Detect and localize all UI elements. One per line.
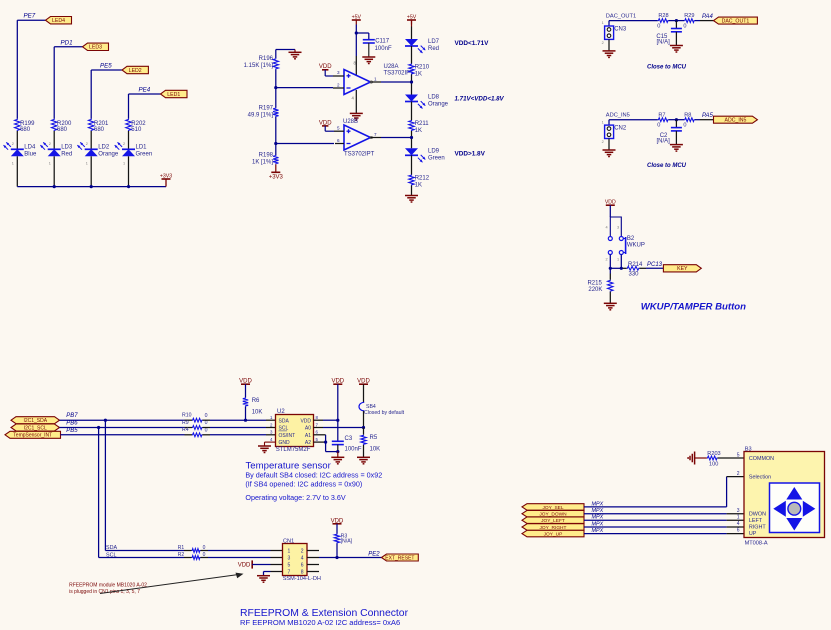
wire JOY_DOWN to pin3 [584, 513, 744, 515]
capacitor C15 [656, 21, 682, 46]
svg-text:3: 3 [337, 70, 340, 75]
label VDD<1.71V [455, 40, 490, 47]
net tag EXT_RESET [382, 554, 419, 561]
svg-text:R199: R199 [20, 121, 35, 127]
power VDD (U28B pin5) [319, 120, 334, 131]
connector CN1 SSM-104-L-DH [283, 538, 321, 582]
svg-text:1K: 1K [415, 71, 422, 77]
svg-text:DAC_OUT1: DAC_OUT1 [606, 13, 636, 19]
svg-text:Red: Red [61, 151, 72, 157]
svg-text:SSM-104-L-DH: SSM-104-L-DH [283, 576, 321, 582]
svg-text:CN2: CN2 [614, 126, 627, 132]
ground (U2 GND pin4) [258, 442, 276, 452]
svg-text:3: 3 [737, 508, 740, 514]
resistor R8 [683, 112, 694, 128]
svg-text:EXT_RESET: EXT_RESET [385, 555, 414, 561]
svg-text:8: 8 [301, 570, 304, 576]
resistor R211 [409, 120, 429, 134]
svg-text:TS3702IPT: TS3702IPT [344, 152, 375, 158]
svg-text:2: 2 [123, 142, 125, 146]
power VDD (R6 pull-up) [239, 378, 252, 397]
svg-text:PB6: PB6 [66, 421, 78, 427]
wire JOY_LEFT to pin1 [584, 519, 744, 521]
solder bridge SB4 [359, 402, 405, 416]
ground (joystick common) [688, 452, 707, 465]
resistor R212 [409, 175, 430, 189]
svg-text:SCL: SCL [106, 552, 117, 558]
svg-text:R6: R6 [252, 398, 260, 404]
svg-text:KEY: KEY [677, 266, 688, 272]
label MPX (JOY_RIGHT) [592, 521, 604, 527]
svg-text:LED2: LED2 [129, 68, 142, 74]
LED LD4 Blue [4, 142, 37, 165]
wire net PD1 (pd1) [54, 39, 82, 119]
svg-text:LED4: LED4 [52, 18, 65, 24]
svg-text:7: 7 [374, 132, 377, 137]
svg-text:A0: A0 [305, 426, 311, 432]
wire resistor R200 to LED LD3 [53, 131, 55, 149]
svg-text:1: 1 [288, 549, 291, 555]
connector CN2 [602, 120, 627, 144]
wire +5V to C117 and U28A pin8 [355, 25, 369, 57]
wire R10 to U2 pin1 [203, 419, 276, 422]
svg-text:VDD>1.8V: VDD>1.8V [455, 151, 486, 158]
wire R214 to KEY tag [639, 262, 663, 268]
svg-text:4: 4 [606, 226, 608, 230]
svg-text:PE2: PE2 [368, 552, 380, 558]
label MPX (JOY_DOWN) [592, 508, 604, 514]
wire R1 to CN1 pin1 [201, 550, 283, 552]
resistor R214 [627, 262, 643, 278]
svg-text:I2C1_SCL: I2C1_SCL [24, 425, 47, 431]
svg-text:R212: R212 [415, 176, 430, 182]
svg-text:100: 100 [709, 461, 718, 467]
net name ADC_IN5 [606, 113, 630, 119]
LED LD7 Red [405, 39, 440, 53]
svg-text:680: 680 [20, 127, 31, 133]
ground (under C3) [331, 452, 344, 464]
net tag JOY_UP [522, 530, 584, 537]
wire R210 to node (U28A out) [410, 75, 413, 95]
svg-text:R215: R215 [587, 280, 602, 286]
resistor R196 [244, 56, 279, 70]
resistor R210 [409, 64, 430, 78]
svg-text:0: 0 [683, 123, 686, 129]
svg-text:GND: GND [279, 440, 291, 446]
wire LD7 to R210 [411, 46, 413, 64]
wire R29 to tag / label PA4 [695, 14, 714, 21]
resistor R197 [248, 88, 279, 119]
wire R9 to U2 pin2 [203, 427, 276, 429]
wire LD8 to R211 [411, 102, 413, 121]
svg-text:R2: R2 [178, 552, 185, 558]
svg-text:ADC_IN5: ADC_IN5 [606, 113, 630, 119]
ground (under C117) [362, 43, 375, 64]
net tag JOY_RIGHT [522, 524, 584, 531]
svg-text:6: 6 [737, 528, 740, 534]
svg-text:680: 680 [57, 127, 68, 133]
resistor R201 [89, 119, 110, 133]
svg-text:1K [1%]: 1K [1%] [252, 159, 273, 165]
svg-text:1: 1 [86, 162, 88, 166]
power VDD (CN1 pin5) [238, 560, 283, 568]
svg-text:1: 1 [602, 120, 604, 124]
svg-text:B3: B3 [745, 447, 752, 453]
connector CN3 [602, 21, 627, 45]
resistor R4 [182, 427, 208, 437]
wire R2 to CN1 pin3 [201, 557, 283, 559]
svg-text:3: 3 [617, 226, 619, 230]
svg-text:TempSensor_INT: TempSensor_INT [13, 433, 52, 439]
svg-text:SDA: SDA [279, 418, 290, 424]
svg-text:10K: 10K [370, 447, 381, 453]
svg-text:[N/A]: [N/A] [656, 139, 670, 145]
wire JOY_SEL to pin2 [584, 477, 744, 507]
wire resistor R201 to LED LD2 [90, 131, 92, 149]
power +3V3 (divider bottom) [269, 164, 284, 180]
svg-text:220K: 220K [588, 287, 602, 293]
wire net PE5 (pe5) [91, 63, 122, 119]
svg-text:1: 1 [12, 162, 14, 166]
ground (U28A pin4) [350, 90, 363, 120]
svg-text:WKUP/TAMPER Button: WKUP/TAMPER Button [641, 302, 746, 313]
svg-text:PB5: PB5 [66, 428, 78, 434]
wire LED LD1 to +3V3 rail [128, 156, 130, 186]
svg-text:MT008-A: MT008-A [745, 541, 768, 547]
svg-text:1.71V<VDD<1.8V: 1.71V<VDD<1.8V [455, 96, 505, 103]
ground (LED chain bottom) [405, 186, 418, 203]
junction node A [274, 86, 277, 89]
svg-text:VDD: VDD [300, 418, 311, 424]
svg-text:Operating voltage: 2.7V to 3.6: Operating voltage: 2.7V to 3.6V [245, 493, 345, 502]
net tag LED3 [83, 43, 109, 51]
svg-text:4: 4 [737, 521, 740, 527]
svg-text:R214: R214 [628, 262, 643, 268]
note SB4 opened [245, 480, 362, 489]
resistor R215 [587, 268, 613, 293]
net tag LED1 [161, 90, 188, 98]
wire ADC_IN5 [609, 120, 658, 125]
svg-text:PB7: PB7 [66, 413, 78, 419]
ground (under CN3) [603, 39, 616, 57]
ground (under R215) [604, 292, 617, 310]
svg-text:0: 0 [657, 123, 660, 129]
svg-text:R196: R196 [259, 56, 274, 62]
LED LD9 Green [405, 148, 445, 162]
svg-text:STLM75M2F: STLM75M2F [276, 447, 311, 453]
resistor R2 [178, 552, 206, 559]
wire JOY_RIGHT to pin4 [584, 526, 744, 528]
net tag ADC_IN5 [714, 116, 758, 123]
svg-text:R197: R197 [259, 105, 274, 111]
title Temperature sensor [246, 460, 332, 471]
svg-text:COMMON: COMMON [749, 456, 774, 462]
wire resistor R199 to LED LD4 [16, 131, 18, 149]
wire U28A output [371, 81, 412, 83]
power +5V (left) [352, 14, 362, 24]
net tag LED4 [46, 17, 72, 25]
note Close to MCU [647, 163, 687, 169]
wire LED LD4 to +3V3 rail [16, 156, 18, 186]
svg-text:SDA: SDA [106, 545, 117, 551]
svg-text:+3V3: +3V3 [269, 175, 284, 181]
svg-text:LD3: LD3 [61, 144, 73, 150]
svg-text:6: 6 [337, 138, 340, 143]
push-button B2 WKUP [606, 217, 645, 262]
resistor R9 [182, 420, 208, 430]
subtitle RF EEPROM I2C address [240, 618, 400, 627]
resistor R3 [334, 534, 352, 558]
op-amp U28A [333, 56, 414, 101]
svg-text:WKUP: WKUP [627, 242, 645, 248]
ground (under R5) [357, 445, 370, 464]
svg-text:LD2: LD2 [98, 144, 110, 150]
net tag JOY_SEL [522, 504, 584, 511]
svg-text:Closed by default: Closed by default [364, 410, 405, 416]
wire VDD to button [609, 205, 611, 217]
svg-text:(If SB4 opened: I2C address =: (If SB4 opened: I2C address = 0x90) [245, 480, 362, 489]
svg-text:C117: C117 [375, 38, 390, 44]
wire SDA drop [105, 420, 191, 551]
svg-text:LD8: LD8 [428, 95, 440, 101]
svg-text:Close to MCU: Close to MCU [647, 163, 687, 169]
net tag TempSensor_INT [5, 431, 61, 438]
net tag I2C1_SCL [11, 424, 60, 431]
wire R7 to R8 [669, 118, 685, 121]
svg-text:4: 4 [301, 556, 304, 562]
svg-text:0: 0 [683, 24, 686, 30]
svg-text:+5V: +5V [352, 14, 362, 20]
joystick icon [770, 483, 820, 533]
svg-text:1: 1 [49, 162, 51, 166]
svg-text:2: 2 [49, 142, 51, 146]
resistor R29 [683, 13, 694, 29]
power +5V (right) [407, 14, 417, 24]
svg-text:Green: Green [428, 155, 445, 161]
temperature sensor U2 STLM75M2F [270, 409, 318, 453]
resistor R5 [361, 428, 380, 453]
resistor R200 [52, 119, 73, 133]
wire R196 top to ground [276, 50, 295, 59]
resistor R10 [182, 413, 208, 423]
label PB7 [66, 413, 78, 419]
joystick B3 MT008-A [737, 447, 825, 547]
svg-text:PE4: PE4 [139, 87, 151, 94]
svg-text:A1: A1 [305, 433, 311, 439]
svg-text:1: 1 [617, 258, 619, 262]
svg-text:1: 1 [374, 76, 377, 81]
power VDD (U28A pin3) [319, 64, 333, 76]
wire +5V to LD7 [411, 20, 413, 39]
svg-text:C3: C3 [345, 436, 353, 442]
svg-text:R211: R211 [415, 121, 430, 127]
wire R211 to node (U28B out) [410, 131, 413, 148]
svg-text:U28B: U28B [343, 119, 358, 125]
svg-text:Green: Green [136, 151, 153, 157]
label VDD>1.8V [455, 151, 486, 158]
svg-text:1: 1 [602, 21, 604, 25]
arrow to CN1 [100, 573, 244, 594]
wire LED LD3 to +3V3 rail [53, 156, 55, 186]
label PB5 [66, 428, 78, 434]
svg-text:I2C1_SDA: I2C1_SDA [23, 418, 47, 424]
label 1.71V<VDD<1.8V [455, 96, 505, 103]
svg-text:Blue: Blue [24, 151, 37, 157]
svg-text:RF EEPROM MB1020 A-02 I2C addr: RF EEPROM MB1020 A-02 I2C address= 0xA6 [240, 618, 400, 627]
svg-text:R9: R9 [182, 420, 189, 426]
svg-text:R8: R8 [684, 112, 691, 118]
svg-text:0: 0 [205, 427, 208, 433]
LED LD2 Orange [77, 142, 118, 165]
svg-text:5: 5 [737, 452, 740, 458]
wire +3V3 rail [17, 186, 166, 188]
ground (under CN2) [603, 139, 616, 157]
net tag LED2 [122, 66, 148, 74]
svg-text:RIGHT: RIGHT [749, 524, 766, 530]
svg-text:10K: 10K [252, 410, 263, 416]
wire U2 pin8 to VDD [314, 419, 340, 422]
note SB4 closed [245, 471, 382, 480]
svg-text:+3V3: +3V3 [160, 173, 172, 179]
power +3V3 [160, 173, 172, 186]
junction node B [274, 142, 277, 145]
svg-text:2: 2 [86, 142, 88, 146]
svg-text:LED3: LED3 [89, 45, 102, 51]
wire node B [276, 117, 334, 144]
svg-text:100nF: 100nF [375, 46, 392, 52]
capacitor C117 [363, 38, 392, 52]
wire button to node [609, 255, 627, 270]
wire R28 to R29 [669, 19, 685, 22]
wire CN1 pin4 to EXT_RESET [307, 552, 382, 560]
title RFEEPROM & Extension Connector [240, 608, 409, 619]
capacitor C2 [656, 120, 681, 145]
resistor R6 [243, 397, 263, 420]
note RFEEPROM module [69, 583, 147, 595]
net tag DAC_OUT1 [714, 17, 758, 24]
wire U28B output [371, 137, 412, 139]
resistor R1 [178, 545, 206, 552]
svg-text:Selection: Selection [749, 475, 771, 481]
svg-text:5: 5 [337, 126, 340, 131]
svg-text:1.15K [1%]: 1.15K [1%] [244, 63, 274, 69]
svg-text:R29: R29 [684, 13, 694, 19]
svg-text:Orange: Orange [98, 151, 119, 157]
svg-text:[N/A]: [N/A] [341, 539, 353, 545]
wire R8 to tag / label PA5 [695, 113, 714, 120]
power VDD (button) [605, 200, 616, 206]
svg-text:2: 2 [602, 41, 604, 45]
svg-text:2: 2 [12, 142, 14, 146]
svg-text:49.9 [1%]: 49.9 [1%] [248, 112, 274, 118]
svg-text:R200: R200 [57, 121, 72, 127]
svg-text:JOY_UP: JOY_UP [544, 532, 563, 538]
net name DAC_OUT1 [606, 13, 636, 19]
ground (CN1 pin7) [257, 572, 283, 583]
svg-text:By default SB4 closed: I2C add: By default SB4 closed: I2C address = 0x9… [245, 471, 382, 480]
svg-text:JOY_SEL: JOY_SEL [542, 505, 563, 511]
power VDD (U2 pin8 / C3) [331, 378, 344, 420]
resistor R203 [707, 451, 721, 467]
wire resistor R202 to LED LD1 [128, 131, 130, 149]
svg-text:A2: A2 [305, 440, 311, 446]
stub CN1 pin2 [307, 550, 319, 552]
op-amp U28B [334, 119, 377, 157]
net tag I2C1_SDA [11, 417, 60, 424]
wire R203 to COMMON pin5 [718, 457, 744, 459]
note operating voltage [245, 493, 345, 502]
wire R4 to U2 pin3 [203, 434, 276, 436]
svg-text:JOY_LEFT: JOY_LEFT [541, 518, 565, 524]
wire net PE4 (pe4) [129, 87, 161, 119]
svg-text:R202: R202 [131, 121, 146, 127]
resistor R202 [126, 119, 147, 133]
resistor R198 [252, 144, 279, 166]
svg-text:R210: R210 [415, 65, 430, 71]
svg-text:OS/INT: OS/INT [279, 433, 296, 439]
resistor R7 [657, 112, 668, 128]
svg-text:B2: B2 [627, 236, 635, 242]
svg-text:R10: R10 [182, 413, 192, 419]
svg-text:PE5: PE5 [100, 63, 112, 70]
label MPX (JOY_SEL) [592, 501, 604, 507]
svg-text:PA5: PA5 [702, 113, 714, 119]
ground (under C15) [670, 32, 683, 52]
svg-text:100nF: 100nF [345, 447, 362, 453]
LED LD8 Orange [405, 95, 449, 109]
wire LD9 to R212 [411, 155, 413, 174]
svg-text:1K: 1K [415, 182, 422, 188]
svg-text:PA4: PA4 [702, 14, 714, 20]
svg-text:5: 5 [288, 563, 291, 569]
svg-text:R201: R201 [94, 121, 109, 127]
svg-text:LED1: LED1 [167, 92, 180, 98]
svg-text:510: 510 [131, 127, 142, 133]
wire SB4 to A0 [314, 411, 366, 429]
svg-text:LD9: LD9 [428, 148, 440, 154]
svg-text:CN1: CN1 [283, 538, 294, 544]
svg-text:330: 330 [629, 272, 640, 278]
svg-text:R4: R4 [182, 427, 189, 433]
svg-text:PC13: PC13 [647, 262, 663, 268]
wire JOY_UP to pin6 [584, 533, 744, 535]
svg-text:VDD: VDD [605, 200, 616, 206]
label PB6 [66, 421, 78, 427]
svg-text:VDD<1.71V: VDD<1.71V [455, 40, 490, 47]
svg-text:ADC_IN5: ADC_IN5 [724, 118, 746, 124]
svg-text:1: 1 [737, 515, 740, 521]
ground (under C2) [670, 131, 683, 151]
LED LD1 Green [115, 142, 152, 165]
svg-text:3: 3 [288, 556, 291, 562]
svg-text:6: 6 [301, 563, 304, 569]
wire net PE7 (pe7) [17, 13, 45, 119]
wire node A [276, 70, 333, 88]
wire SCL drop [99, 428, 192, 559]
net tag KEY [663, 265, 701, 273]
svg-text:+5V: +5V [407, 14, 417, 20]
title WKUP/TAMPER Button [641, 302, 746, 313]
wire I2C1_SDA [60, 419, 193, 422]
resistor R28 [657, 13, 668, 29]
svg-text:VDD: VDD [238, 563, 251, 569]
svg-text:LD1: LD1 [136, 144, 148, 150]
wire LED LD2 to +3V3 rail [90, 156, 92, 186]
ground (top of R196) [289, 50, 302, 59]
svg-text:Orange: Orange [428, 102, 449, 108]
svg-text:2: 2 [606, 258, 608, 262]
svg-text:2: 2 [737, 471, 740, 477]
